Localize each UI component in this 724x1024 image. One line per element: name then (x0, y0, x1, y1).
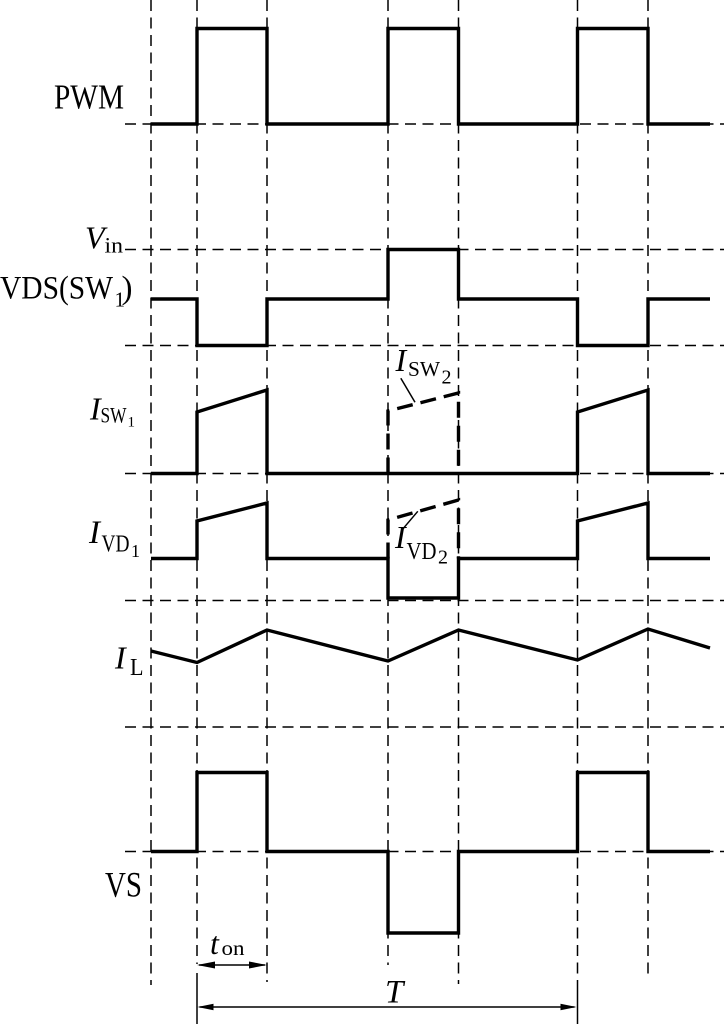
ton dimension arrow (197, 962, 267, 969)
grid vline t4 x=458.5 (fall of pulse 2) (458, 0, 460, 984)
svg-text:I: I (395, 342, 408, 378)
grid vline t3 x=388 (rise of pulse 2) (387, 0, 389, 965)
VDS(SW1) waveform (151, 250, 710, 346)
IL inductor-current waveform (151, 629, 710, 663)
hline VDS low level y=345.5 (125, 345, 724, 347)
ISW2 dashed pulse (388, 393, 459, 474)
IVD2 dashed pulse (388, 500, 459, 559)
hline Vin level y=249.5 (125, 249, 724, 251)
grid vline t1 x=197 (rise of pulse 1) (196, 0, 198, 964)
svg-text:1: 1 (128, 415, 136, 431)
hline IVD1 negative level y=600.5 (125, 600, 724, 602)
hline ISW1 zero level y=473.5 (125, 473, 724, 475)
svg-text:L: L (130, 655, 144, 681)
VS waveform (151, 773, 710, 934)
extension line at x=577.5 (dimension) (577, 980, 579, 1024)
IVD1 waveform (151, 503, 710, 598)
hline PWM baseline level y=124 (125, 123, 724, 125)
svg-text:2: 2 (442, 367, 452, 389)
grid vline t6 x=648 (fall of pulse 3) (647, 0, 649, 980)
svg-text:in: in (105, 233, 124, 258)
hline VS zero level y=851.5 (125, 851, 724, 853)
svg-text:VS: VS (105, 865, 142, 905)
leader line to IVD2 (402, 511, 418, 529)
svg-text:on: on (222, 936, 246, 960)
svg-text:I: I (114, 640, 127, 676)
leader line to ISW2 (401, 378, 415, 402)
svg-text:VD: VD (102, 532, 130, 558)
extension line at x=197 (dimension) (196, 973, 198, 1024)
svg-text:I: I (88, 515, 102, 551)
svg-text:T: T (385, 975, 406, 1011)
svg-text:VDS(SW: VDS(SW (0, 271, 114, 307)
ISW1 waveform (151, 390, 710, 474)
svg-text:VD: VD (407, 539, 437, 565)
T dimension arrow (198, 1004, 577, 1011)
svg-text:I: I (394, 519, 407, 555)
svg-text:SW: SW (101, 403, 127, 428)
svg-text:t: t (210, 925, 220, 961)
grid vline t0 x=151 (150, 0, 152, 985)
svg-text:PWM: PWM (54, 78, 124, 117)
svg-text:): ) (122, 271, 133, 307)
grid vline t5 x=577.5 (rise of pulse 3) (577, 0, 579, 980)
PWM waveform (151, 29, 710, 125)
svg-text:1: 1 (131, 541, 140, 561)
hline separator above VS y=727 (125, 726, 724, 728)
grid vline t2 x=267 (fall of pulse 1) (266, 0, 268, 982)
svg-text:2: 2 (438, 547, 448, 569)
svg-text:SW: SW (408, 357, 440, 381)
